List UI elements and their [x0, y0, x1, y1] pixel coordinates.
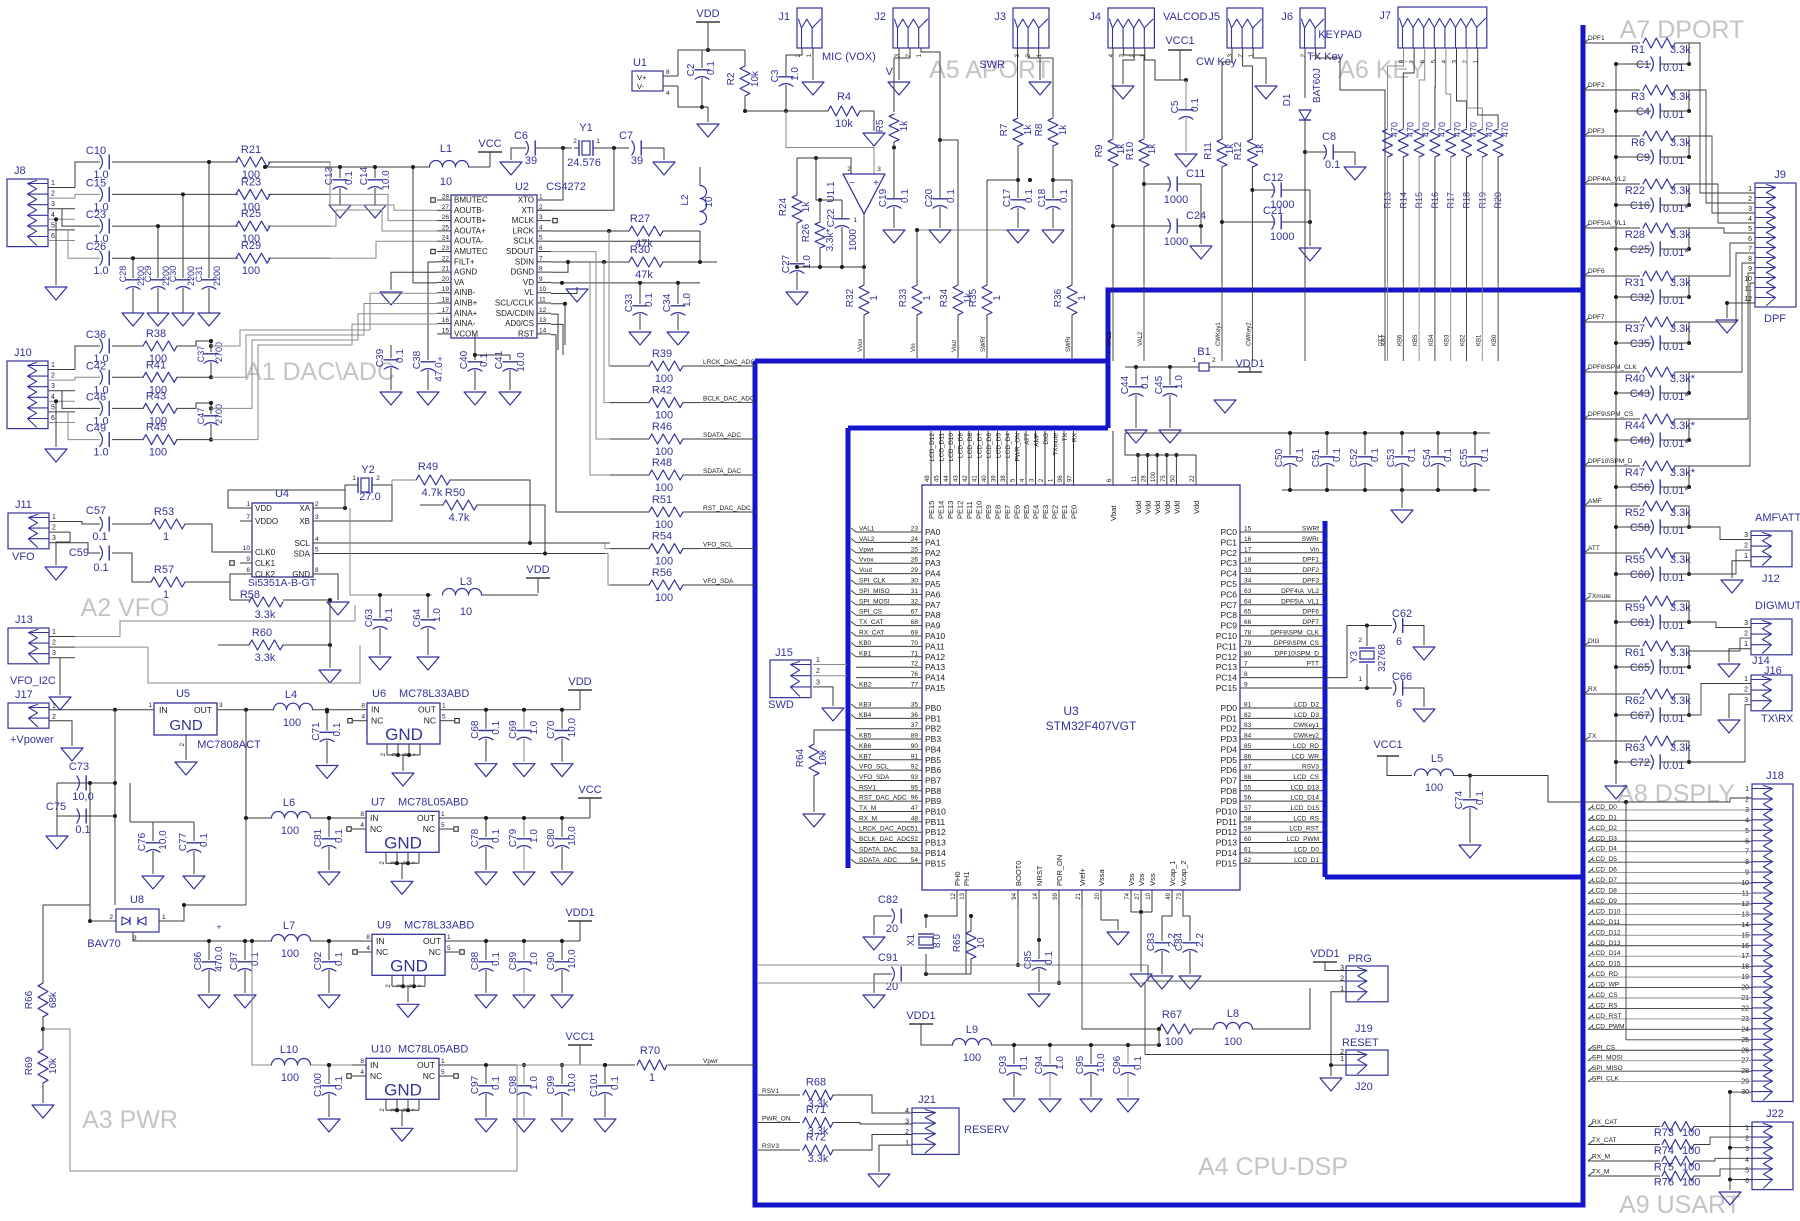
wire R47 node: [1675, 466, 1689, 487]
capacitor C100: [328, 1065, 330, 1084]
U3 pin 40 PE9 LCD_D6: [987, 431, 989, 485]
inductor L3: [443, 589, 482, 595]
wire R13 bottom: [1387, 157, 1389, 283]
svg-text:16: 16: [1741, 943, 1749, 950]
svg-text:J12: J12: [1762, 573, 1780, 585]
svg-text:15: 15: [1741, 932, 1749, 939]
svg-text:8: 8: [360, 1058, 364, 1065]
capacitor C62: [1393, 619, 1396, 633]
svg-text:58: 58: [1244, 815, 1252, 822]
svg-text:PE2: PE2: [1051, 505, 1060, 519]
U3 pin 52 PB13 BCLK_DAC_ADC: [856, 842, 922, 844]
svg-text:DIG\MUTE: DIG\MUTE: [1755, 600, 1800, 612]
wire SCLK right: [551, 240, 700, 242]
crystal Y1: [582, 141, 590, 155]
svg-text:PC4: PC4: [1220, 569, 1237, 579]
svg-text:7: 7: [1244, 661, 1248, 668]
U4 pin 9 CLK1: [240, 562, 252, 564]
svg-text:72: 72: [911, 661, 919, 668]
wire J3 pin2: [1028, 48, 1053, 117]
svg-text:C15: C15: [86, 177, 106, 189]
wire C31 to gnd: [208, 288, 210, 313]
connector J15: [770, 660, 811, 698]
U4 pin 7 VDDO: [240, 520, 252, 522]
svg-text:U10: U10: [371, 1043, 391, 1055]
svg-text:48: 48: [925, 475, 931, 482]
svg-text:7: 7: [1748, 246, 1752, 253]
svg-text:68: 68: [911, 619, 919, 626]
svg-text:10k: 10k: [835, 118, 853, 130]
net flag KB0: [1492, 334, 1498, 346]
svg-text:1: 1: [442, 703, 446, 710]
svg-text:C56: C56: [1630, 482, 1650, 494]
svg-text:470: 470: [1484, 122, 1494, 137]
svg-text:1k: 1k: [1023, 124, 1034, 136]
wire D1 to border: [1304, 283, 1306, 361]
svg-text:1: 1: [163, 589, 169, 601]
capacitor C79: [523, 818, 525, 837]
svg-text:1: 1: [853, 217, 857, 224]
svg-text:1: 1: [52, 703, 56, 710]
svg-text:C74: C74: [1454, 790, 1465, 809]
svg-text:19: 19: [1741, 974, 1749, 981]
connector J3: [1013, 8, 1049, 48]
svg-text:28: 28: [1142, 475, 1148, 482]
svg-text:45: 45: [935, 475, 941, 482]
wire R66-R69: [42, 1017, 44, 1049]
wire J16 pin2 gnd: [1729, 694, 1751, 718]
svg-text:KB3: KB3: [1445, 334, 1451, 346]
ground J11: [56, 532, 70, 565]
wire R60: [218, 644, 249, 646]
op-amp U2 CS4272 box: [451, 195, 537, 338]
svg-text:C82: C82: [878, 894, 898, 906]
power VDD U1: [696, 21, 720, 23]
op-amp U1.1: [843, 174, 885, 214]
U10 pin OUT: [439, 1064, 453, 1066]
svg-text:R42: R42: [652, 385, 672, 397]
U2 pin 16 AINA-: [437, 323, 451, 325]
ground J15: [822, 708, 844, 721]
svg-text:C3: C3: [770, 69, 781, 82]
wire DPF6 to J9 pin6: [1689, 243, 1755, 276]
ground Vssa: [1107, 932, 1129, 945]
inductor L9: [953, 1039, 992, 1045]
svg-text:PA1: PA1: [925, 537, 941, 547]
resistor R63 3.3k: [1643, 736, 1675, 746]
svg-text:LCD_D12: LCD_D12: [929, 433, 936, 462]
svg-text:C2: C2: [686, 63, 697, 76]
resistor R39: [649, 361, 683, 371]
resistor R43: [143, 403, 177, 413]
U2 pin 17 AINA+: [437, 312, 451, 314]
svg-text:AOUTB+: AOUTB+: [454, 216, 487, 225]
resistor R72 3.3k: [803, 1145, 833, 1155]
svg-text:100: 100: [283, 717, 301, 729]
IC U3 STM32F407VGT box: [922, 485, 1240, 890]
U3 pin 84 PD3 CWKey2: [1240, 738, 1322, 740]
connector J21: [912, 1108, 959, 1154]
wire J10 pin3: [62, 391, 100, 409]
svg-text:C7: C7: [619, 130, 633, 142]
svg-text:R36: R36: [1053, 288, 1064, 307]
svg-text:DPF3: DPF3: [1302, 578, 1319, 585]
resistor R14 470: [1398, 129, 1408, 157]
svg-text:RSV3: RSV3: [762, 1143, 779, 1150]
A4 CPU-DSP region border (thick blue): [755, 359, 1108, 364]
ground R64: [803, 814, 825, 827]
svg-text:BAV70: BAV70: [87, 938, 120, 950]
wire AIN bus2: [211, 335, 364, 377]
U3 pin 60 PD13 LCD_PWM: [1240, 842, 1322, 844]
svg-text:18: 18: [1741, 964, 1749, 971]
svg-text:0.1: 0.1: [1407, 448, 1418, 462]
U3 pin 97 PE0 RX: [1073, 431, 1075, 485]
ground C7: [653, 162, 675, 175]
svg-text:C87: C87: [229, 951, 240, 970]
wire R27: [551, 230, 629, 232]
capacitor C6: [526, 141, 529, 155]
svg-text:DPF5\A_VL1: DPF5\A_VL1: [1281, 598, 1319, 605]
svg-text:RSV3: RSV3: [1302, 764, 1319, 771]
J1 pin nums: [796, 53, 802, 57]
resistor R53: [151, 519, 185, 529]
svg-text:100: 100: [655, 373, 673, 385]
inductor L1: [430, 161, 469, 168]
capacitor C99: [561, 1065, 563, 1084]
svg-text:LCD_D9: LCD_D9: [958, 433, 965, 458]
connector J9: [1755, 183, 1796, 307]
capacitor C5: [1179, 117, 1193, 120]
svg-text:PA0: PA0: [925, 527, 941, 537]
U7 pin NC right: [439, 828, 453, 830]
capacitor C83 2.2: [1161, 922, 1163, 941]
svg-text:C97: C97: [470, 1075, 481, 1094]
svg-text:90: 90: [911, 743, 919, 750]
resistor R30: [629, 257, 663, 267]
U3 pin 70 PA11 KB0: [856, 645, 922, 647]
svg-text:60: 60: [1244, 836, 1252, 843]
wire RST route2: [610, 511, 630, 513]
svg-text:23: 23: [911, 526, 919, 533]
svg-text:VFO_SDA: VFO_SDA: [859, 774, 890, 781]
net flag KB7: [1382, 334, 1388, 346]
svg-text:31: 31: [911, 588, 919, 595]
U4 pin 10 CLK0: [240, 551, 252, 553]
svg-text:0.1: 0.1: [1295, 448, 1306, 462]
svg-text:LCD_D8: LCD_D8: [967, 433, 974, 458]
svg-text:C27: C27: [781, 254, 792, 273]
svg-text:KB3: KB3: [859, 702, 872, 709]
svg-text:C48: C48: [1630, 435, 1650, 447]
ground C6: [500, 162, 522, 175]
IC U5 MC7808ACT box: [154, 703, 217, 735]
resistor R23: [236, 189, 270, 199]
svg-text:C96: C96: [1112, 1055, 1123, 1074]
wire AIN bus3: [211, 340, 358, 408]
svg-text:IN: IN: [371, 705, 380, 715]
U3 pin 53 PB14 SDATA_DAC: [856, 852, 922, 854]
wire J1 pin2 stub: [801, 48, 803, 52]
wire J15 pin1 PA13: [813, 664, 847, 666]
wire R17 bottom: [1450, 157, 1452, 283]
ground C74: [1469, 808, 1471, 843]
svg-text:2: 2: [52, 525, 56, 532]
ground J12: [1721, 580, 1743, 593]
wire PC14 to C62 row: [1322, 626, 1392, 678]
ground C27: [786, 292, 808, 305]
svg-text:KB2: KB2: [1461, 334, 1467, 346]
svg-text:A7 DPORT: A7 DPORT: [1620, 16, 1745, 44]
U2 pin 2 XTI: [537, 209, 551, 211]
ground U5: [175, 762, 197, 775]
wire VDD line U4: [350, 508, 432, 595]
svg-text:PD2: PD2: [1220, 724, 1237, 734]
capacitor C97: [485, 1065, 487, 1084]
capacitor C12 1000: [1252, 189, 1274, 191]
svg-text:LCD_D15: LCD_D15: [1290, 805, 1319, 812]
resistor R15 470: [1414, 129, 1424, 157]
resistor R74 100: [1662, 1140, 1694, 1150]
svg-text:2700: 2700: [214, 404, 224, 424]
svg-text:PRG: PRG: [1348, 953, 1372, 965]
capacitor C53: [1401, 433, 1403, 455]
svg-text:PD3: PD3: [1220, 734, 1237, 744]
wire J22 pin6 gnd: [1730, 1179, 1752, 1181]
U3 pin 17 PC2 Vin: [1240, 552, 1322, 554]
svg-text:MCLK: MCLK: [512, 216, 535, 225]
svg-text:C5: C5: [1170, 100, 1181, 113]
svg-text:1: 1: [441, 811, 445, 818]
svg-text:10: 10: [1146, 892, 1152, 899]
wire R58: [230, 599, 249, 601]
svg-text:PA7: PA7: [925, 600, 941, 610]
wire AD0 route: [551, 324, 563, 355]
svg-text:28: 28: [442, 194, 450, 201]
svg-text:DIG: DIG: [1043, 433, 1050, 445]
capacitor C67 0.01: [1651, 708, 1654, 722]
capacitor C50: [1289, 433, 1291, 455]
svg-text:1: 1: [1358, 676, 1362, 683]
resistor R3 3.3k: [1643, 85, 1675, 95]
wire J19 pin2: [1148, 980, 1346, 982]
svg-text:R24: R24: [778, 197, 789, 216]
svg-text:AOUTB-: AOUTB-: [454, 206, 485, 215]
svg-text:3: 3: [1744, 620, 1748, 627]
svg-text:C62: C62: [1392, 608, 1412, 620]
svg-text:6: 6: [51, 233, 55, 240]
svg-text:100: 100: [1682, 1145, 1700, 1157]
U3 pin 48 PB11 RX_M: [856, 821, 922, 823]
svg-text:PC2: PC2: [1220, 548, 1237, 558]
wire AINA+ route: [358, 314, 437, 340]
ground R4: [863, 133, 885, 146]
resistor R75 100: [1662, 1156, 1694, 1166]
svg-text:SDA/CDIN: SDA/CDIN: [496, 309, 534, 318]
connector J14: [1751, 619, 1792, 655]
U3 pin 24 PA1 VAL2: [856, 541, 922, 543]
svg-text:A1 DAC\ADC: A1 DAC\ADC: [245, 358, 395, 386]
capacitor C65 0.01: [1651, 660, 1654, 674]
ground C13: [339, 188, 341, 205]
capacitor C57: [70, 522, 100, 525]
svg-text:3.3k: 3.3k: [1670, 137, 1691, 149]
ground J16: [1718, 720, 1740, 733]
svg-text:C76: C76: [137, 832, 148, 851]
wire U4 GND: [325, 574, 338, 600]
capacitor C16 0.01*: [1651, 198, 1654, 212]
svg-text:26: 26: [911, 557, 919, 564]
svg-text:1.0: 1.0: [529, 952, 540, 966]
svg-text:DPF10\SPM_D: DPF10\SPM_D: [1588, 458, 1633, 465]
wire U6 out: [454, 709, 580, 711]
wire U4 CLK1 stub: [230, 561, 234, 565]
svg-text:10: 10: [976, 937, 987, 949]
svg-text:Vdd: Vdd: [1172, 501, 1181, 514]
svg-text:75: 75: [1161, 475, 1167, 482]
svg-text:VFO: VFO: [12, 551, 35, 563]
svg-text:AINB-: AINB-: [454, 288, 476, 297]
wire J14 gnd: [1729, 649, 1751, 662]
U3 pin 74 Vss: [1130, 890, 1132, 908]
svg-text:DPF8\SPM_CLK: DPF8\SPM_CLK: [1588, 364, 1637, 371]
wire DPF3 to J9 pin3: [1689, 136, 1755, 213]
svg-text:NC: NC: [370, 1071, 382, 1081]
svg-text:C17: C17: [1002, 188, 1013, 207]
U3 pin 30 PA5 SPI_CLK: [856, 583, 922, 585]
U3 pin 95 PB8 RSV1: [856, 790, 922, 792]
wire SDA long: [325, 553, 605, 555]
resistor R4 10k: [828, 106, 860, 116]
svg-text:10: 10: [440, 176, 452, 188]
wire TXmute to J14: [1689, 622, 1751, 628]
svg-text:FILT+: FILT+: [454, 257, 475, 266]
wire J7 pin 3 stair: [1457, 48, 1467, 128]
U3 pin 55 PD8 LCD_D13: [1240, 790, 1322, 792]
svg-text:2: 2: [1358, 637, 1362, 644]
svg-text:1: 1: [246, 501, 250, 508]
svg-text:86: 86: [1244, 753, 1252, 760]
svg-text:GND: GND: [169, 717, 203, 734]
U3 pin 50 Vdd: [1175, 455, 1177, 485]
capacitor C73: [57, 782, 115, 784]
svg-text:C47: C47: [196, 408, 206, 425]
capacitor C85: [1038, 940, 1040, 959]
svg-text:A8 DSPLY: A8 DSPLY: [1617, 780, 1735, 808]
svg-text:2: 2: [51, 373, 55, 380]
svg-text:4: 4: [666, 90, 670, 97]
svg-text:22: 22: [1741, 1005, 1749, 1012]
capacitor C44: [1135, 367, 1137, 385]
svg-text:3.3k: 3.3k: [1670, 695, 1691, 707]
svg-text:KB5: KB5: [1413, 334, 1419, 346]
wire R10 bottom: [1143, 167, 1145, 283]
svg-text:VFO_I2C: VFO_I2C: [10, 675, 56, 687]
svg-text:A4 CPU-DSP: A4 CPU-DSP: [1198, 1153, 1348, 1181]
svg-text:C33: C33: [624, 293, 635, 312]
svg-text:PE11: PE11: [965, 501, 974, 519]
svg-text:0.1: 0.1: [199, 833, 210, 847]
svg-text:KB1: KB1: [1476, 334, 1482, 346]
wire C23 row: [112, 225, 238, 227]
U3 pin 91 PB5 KB7: [856, 759, 922, 761]
svg-text:1.0: 1.0: [790, 67, 801, 81]
U2 pin23 NC: [431, 249, 435, 253]
U2 pin 12 SDA/CDIN: [537, 312, 551, 314]
U9 pin NC left: [358, 951, 372, 953]
ground C34: [677, 314, 679, 330]
resistor R59 3.3k: [1643, 596, 1675, 606]
svg-text:47.0: 47.0: [434, 362, 445, 382]
U6 pin OUT: [440, 709, 454, 711]
svg-text:PD7: PD7: [1220, 775, 1237, 785]
svg-text:100: 100: [655, 519, 673, 531]
svg-text:C73: C73: [69, 761, 89, 773]
ground U1 area: [702, 106, 708, 108]
svg-text:XA: XA: [299, 504, 310, 513]
ground C41: [509, 370, 511, 390]
svg-text:9: 9: [1748, 266, 1752, 273]
wire DPF2 to J9 pin2: [1689, 90, 1755, 203]
IC U10 MC78L05ABD box: [366, 1058, 439, 1099]
svg-text:54: 54: [911, 857, 919, 864]
wire R39 left: [610, 365, 649, 367]
svg-text:C26: C26: [86, 241, 106, 253]
svg-text:4: 4: [360, 822, 364, 829]
svg-text:82: 82: [1244, 712, 1252, 719]
svg-text:R23: R23: [241, 176, 261, 188]
svg-text:+Vpower: +Vpower: [10, 734, 54, 746]
svg-text:0.1: 0.1: [1044, 951, 1055, 965]
svg-text:C10: C10: [86, 145, 106, 157]
wire J4 pin1 vcc: [1145, 48, 1186, 80]
wire J2 pin3 gnd: [898, 48, 900, 80]
svg-text:C99: C99: [546, 1075, 557, 1094]
wire R56 right flag: [683, 584, 700, 586]
U3 pin 63 PC6 DPF4\A_VL2: [1240, 593, 1322, 595]
svg-text:6: 6: [1745, 838, 1749, 845]
svg-text:C49: C49: [86, 423, 106, 435]
svg-text:R27: R27: [630, 213, 650, 225]
svg-text:470: 470: [1390, 122, 1400, 137]
U9 bottom pins: [391, 975, 393, 986]
wire C30 stem: [182, 194, 184, 278]
U3 pin 15 PC0 SWRf: [1240, 531, 1322, 533]
svg-text:PC9: PC9: [1220, 621, 1237, 631]
svg-text:Vcap_2: Vcap_2: [1179, 861, 1188, 886]
wire R56 left: [610, 584, 649, 586]
net flag PTT: [1379, 334, 1385, 346]
svg-text:PE14: PE14: [937, 501, 946, 519]
svg-text:PA14: PA14: [925, 673, 945, 683]
U9 pin NC right: [445, 951, 459, 953]
capacitor C7: [632, 141, 635, 155]
resistor R10 1k: [1139, 139, 1149, 167]
svg-text:97: 97: [1068, 475, 1074, 482]
svg-text:0.1: 0.1: [395, 349, 406, 363]
svg-text:11: 11: [1132, 475, 1138, 482]
svg-text:PTT: PTT: [1307, 661, 1319, 668]
diode U8 BAV70: [116, 909, 159, 932]
svg-text:VDD: VDD: [526, 564, 549, 576]
svg-text:KB2: KB2: [859, 682, 872, 689]
wire R14 bottom: [1402, 157, 1404, 283]
svg-text:PB12: PB12: [925, 827, 946, 837]
svg-text:R26: R26: [801, 223, 812, 242]
wire R1 node: [1675, 43, 1689, 64]
svg-text:+: +: [873, 178, 879, 189]
svg-text:47: 47: [911, 805, 919, 812]
